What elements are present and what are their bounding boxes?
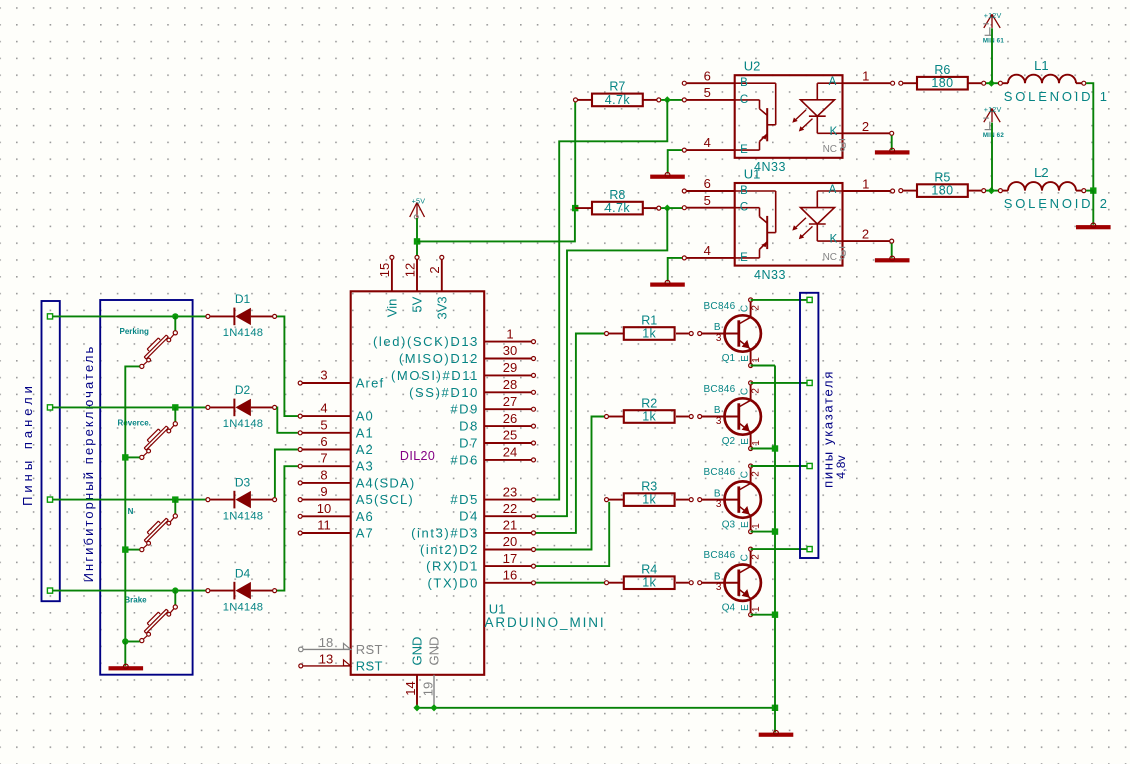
svg-text:D8: D8 [459,419,479,434]
pin 22 D4 [459,501,535,524]
transistor Q2 BC846 [702,381,762,451]
junction [172,313,178,319]
wire [891,136,893,150]
svg-text:1: 1 [751,357,762,363]
svg-text:22: 22 [503,501,517,516]
svg-text:6: 6 [704,176,711,191]
svg-text:23: 23 [503,484,517,499]
svg-text:BC846: BC846 [703,301,735,312]
pin 8 A4(SDA) [298,467,415,490]
wire net #D3 to R1 [536,334,604,533]
wire net D1 to R3 [536,502,609,566]
opto-coupler U2 4N33 [682,68,894,157]
svg-text:A7: A7 [356,526,374,541]
wire [125,456,139,458]
svg-text:B: B [714,571,721,582]
wire [668,258,682,282]
wire [53,315,206,317]
ground [1076,225,1111,229]
svg-text:BC846: BC846 [703,384,735,395]
svg-text:3: 3 [320,368,327,383]
svg-text:Reverce.: Reverce. [118,418,151,427]
pin 20 (int2)D2 [420,534,536,557]
ground [109,666,144,670]
resistor R1 1k [605,313,702,340]
pin 18 RST (inactive) [299,635,383,657]
svg-text:Q3: Q3 [722,519,736,530]
svg-text:N: N [128,507,134,516]
pin 16 (TX)D0 [428,568,536,591]
svg-text:1: 1 [862,177,869,192]
svg-text:ARDUINO_MINI: ARDUINO_MINI [485,615,606,630]
wire GND rail [417,707,775,709]
power +5V flag [410,197,425,219]
svg-text:A: A [829,184,837,196]
resistor R8 4.7k [575,188,661,215]
sheet Пины панели [20,301,60,601]
svg-text:MIN 62: MIN 62 [983,132,1005,139]
svg-text:A: A [829,76,837,88]
svg-text:2: 2 [751,471,762,477]
svg-text:A6: A6 [356,509,374,524]
wire +5V [416,218,418,255]
junction [1090,187,1096,193]
svg-text:Q1: Q1 [722,353,736,364]
svg-text:E: E [740,144,748,156]
svg-text:C: C [739,388,750,395]
svg-text:E: E [740,604,751,611]
junction [430,704,437,711]
junction [772,445,778,451]
junction [172,496,178,502]
svg-text:RST: RST [356,658,383,673]
junction [122,546,128,552]
svg-text:R5: R5 [934,170,950,184]
switch Reverce. [118,407,178,459]
wire [661,99,682,101]
hierarchical pin [807,463,812,468]
pin 30 (MISO)D12 [399,343,536,366]
switch Perking [120,316,178,368]
wire [661,207,682,209]
hierarchical pin [47,497,52,502]
pin 5 A1 [298,417,374,440]
svg-text:3: 3 [716,333,722,344]
svg-text:#D9: #D9 [450,402,479,417]
wire [417,208,575,241]
svg-text:1: 1 [751,606,762,612]
svg-text:C: C [740,202,748,214]
svg-text:Q4: Q4 [722,602,736,613]
svg-text:U2: U2 [744,59,761,74]
junction [772,612,778,618]
svg-text:R6: R6 [934,63,950,77]
svg-text:1N4148: 1N4148 [223,601,263,613]
junction [772,528,778,534]
junction [122,454,128,460]
wire [774,708,776,733]
wire [574,102,576,208]
svg-text:4.7k: 4.7k [605,201,631,215]
svg-text:1k: 1k [642,327,656,341]
svg-text:R4: R4 [641,563,657,577]
pin 15 Vin [377,255,399,317]
svg-text:(RX)D1: (RX)D1 [426,559,479,574]
svg-text:B: B [740,185,748,197]
junction [414,238,420,244]
svg-text:+12V: +12V [984,11,1002,20]
svg-text:GND: GND [427,637,442,666]
svg-text:B: B [714,405,721,416]
switch N [128,500,178,552]
svg-text:A0: A0 [356,409,374,424]
junction [122,638,128,644]
ground [875,258,910,262]
svg-text:R7: R7 [609,80,625,94]
power +12V flag MIN 62 [983,105,1005,139]
svg-text:26: 26 [503,411,517,426]
svg-text:C: C [739,471,750,478]
wire [1092,191,1094,225]
svg-text:1: 1 [862,69,869,84]
pin 27 #D9 [450,394,535,417]
pin 10 A6 [298,501,374,524]
pin 9 A5(SCL) [298,484,414,507]
power +12V flag MIN 61 [983,11,1005,45]
wire net D0 to R4 [536,582,604,584]
wire D1-A0 [277,316,298,416]
wire net D2 to R2 [536,417,604,550]
svg-text:Brake: Brake [124,596,147,605]
svg-text:3: 3 [716,416,722,427]
wire [986,190,998,192]
svg-text:2: 2 [862,227,869,242]
svg-text:+5V: +5V [412,197,426,206]
wire emitter rail [774,366,776,708]
svg-text:R2: R2 [641,396,657,410]
wire collector [751,299,807,301]
svg-text:11: 11 [317,518,331,533]
pin 3 Aref [298,368,384,391]
svg-text:7: 7 [320,451,327,466]
svg-text:+12V: +12V [984,105,1002,114]
svg-text:E: E [740,521,751,528]
svg-text:Ингибиторный переключатель: Ингибиторный переключатель [81,345,96,583]
svg-text:D4: D4 [459,509,479,524]
svg-text:Aref: Aref [356,376,385,391]
junction [772,705,778,711]
wire [1086,190,1093,192]
svg-text:4N33: 4N33 [754,268,786,282]
svg-text:4: 4 [320,401,327,416]
svg-text:180: 180 [931,184,953,198]
wire [986,82,998,84]
svg-text:9: 9 [320,484,327,499]
inductor L2 SOLENOID 2 [998,165,1109,211]
pin 11 A7 [298,518,374,541]
wire collector [751,465,807,467]
svg-text:1k: 1k [642,493,656,507]
svg-text:A1: A1 [356,425,374,440]
wire [53,590,206,592]
transistor Q3 BC846 [702,464,762,534]
svg-text:(int3)#D3: (int3)#D3 [411,525,479,540]
sheet пины указателя 4,8v [800,293,848,558]
pin 6 A2 [298,434,374,457]
svg-text:E: E [740,252,748,264]
svg-text:19: 19 [420,682,435,696]
svg-text:K: K [830,126,838,138]
hierarchical pin [807,380,812,385]
svg-text:A2: A2 [356,442,374,457]
svg-text:1: 1 [506,326,513,341]
pin 4 A0 [298,401,374,424]
svg-text:15: 15 [377,263,392,277]
pin 13 RST [299,651,383,673]
svg-text:2: 2 [751,554,762,560]
svg-text:16: 16 [503,568,517,583]
svg-text:14: 14 [403,681,418,695]
wire emitter [751,448,775,450]
svg-text:B: B [714,322,721,333]
resistor R7 4.7k [574,80,661,107]
svg-text:27: 27 [503,394,517,409]
svg-text:4.7k: 4.7k [605,93,631,107]
wire [125,641,139,643]
junction [664,205,671,212]
hierarchical pin [47,588,52,593]
diode D2 1N4148 [206,383,277,430]
svg-text:1N4148: 1N4148 [223,327,263,339]
wire collector [751,382,807,384]
junction [988,80,995,87]
svg-text:13: 13 [319,651,333,666]
svg-text:(led)(SCK)D13: (led)(SCK)D13 [373,334,479,349]
svg-text:B: B [740,77,748,89]
svg-text:180: 180 [931,76,953,90]
svg-text:2: 2 [751,388,762,394]
pin 17 (RX)D1 [426,551,535,574]
svg-text:2: 2 [862,119,869,134]
svg-text:E: E [740,355,751,362]
svg-text:A3: A3 [356,459,374,474]
switch Brake [124,591,177,643]
svg-text:20: 20 [503,534,517,549]
svg-text:1: 1 [751,440,762,446]
svg-text:5: 5 [320,417,327,432]
inductor L1 SOLENOID 1 [998,58,1109,104]
hierarchical pin [807,547,812,552]
svg-text:A4(SDA): A4(SDA) [356,475,416,490]
svg-text:Vin: Vin [384,299,399,318]
svg-text:5V: 5V [410,296,425,312]
svg-text:28: 28 [503,377,517,392]
svg-text:1k: 1k [642,410,656,424]
svg-text:BC846: BC846 [703,467,735,478]
pin 19 GND (inactive) [420,637,441,708]
junction [172,587,178,593]
wire emitter [751,365,775,367]
svg-text:Пины панели: Пины панели [20,382,35,506]
svg-text:NC: NC [823,144,837,155]
svg-text:Perking: Perking [120,327,149,336]
pin 7 A3 [298,451,374,474]
IC U1 ARDUINO_MINI DIL20 [351,291,606,675]
ground [650,283,685,287]
svg-text:A5(SCL): A5(SCL) [356,492,414,507]
pin 2 3V3 [427,255,449,319]
resistor R3 1k [605,479,702,506]
pin 25 D7 [459,428,535,451]
pin 21 (int3)#D3 [411,518,535,541]
svg-text:1N4148: 1N4148 [223,418,263,430]
wire D4-A3 [277,466,298,590]
svg-text:RST: RST [356,642,383,657]
svg-text:1: 1 [751,523,762,529]
svg-text:D3: D3 [235,475,251,489]
svg-text:6: 6 [320,434,327,449]
resistor R4 1k [605,563,702,590]
svg-text:R3: R3 [641,479,657,493]
svg-text:L2: L2 [1034,165,1048,180]
hierarchical pin [47,314,52,319]
pin 26 D8 [459,411,535,434]
svg-text:18: 18 [319,635,333,650]
svg-text:BC846: BC846 [703,550,735,561]
junction [572,205,578,211]
svg-text:6: 6 [704,68,711,83]
svg-text:12: 12 [402,263,417,277]
opto-coupler U1 4N33 [682,176,894,265]
wire net D4 to U1 [536,208,668,516]
svg-text:25: 25 [503,428,517,443]
svg-text:8: 8 [320,467,327,482]
wire collector [751,548,807,550]
svg-text:D1: D1 [235,292,251,306]
svg-text:(int2)D2: (int2)D2 [420,542,479,557]
sheet Ингибиторный переключатель [81,300,193,675]
ground [650,175,685,179]
hierarchical pin [47,405,52,410]
svg-text:5: 5 [704,85,711,100]
svg-text:(MOSI)#D11: (MOSI)#D11 [391,368,479,383]
wire [668,150,682,174]
svg-text:#D6: #D6 [450,452,479,467]
transistor Q1 BC846 [702,298,762,368]
ground [875,150,910,154]
svg-text:#D5: #D5 [450,492,479,507]
svg-text:C: C [739,554,750,561]
svg-text:NC: NC [823,252,837,263]
wire D2-A1 [277,407,298,432]
svg-text:3: 3 [716,499,722,510]
wire [124,642,126,666]
svg-text:(MISO)D12: (MISO)D12 [399,351,479,366]
svg-text:4: 4 [704,243,711,258]
junction [988,187,995,194]
svg-text:1k: 1k [642,576,656,590]
diode D4 1N4148 [206,566,277,613]
pin 28 (SS)#D10 [409,377,535,400]
svg-text:K: K [830,234,838,246]
wire emitter [751,531,775,533]
svg-text:(SS)#D10: (SS)#D10 [409,385,479,400]
svg-text:5: 5 [704,193,711,208]
pin 12 5V [402,255,424,312]
svg-text:D4: D4 [235,566,251,580]
junction [413,704,420,711]
hierarchical pin [807,297,812,302]
wire [125,549,139,551]
svg-text:2: 2 [751,305,762,311]
junction [172,404,178,410]
svg-text:1N4148: 1N4148 [223,510,263,522]
svg-text:4,8v: 4,8v [834,455,848,478]
pin 29 (MOSI)#D11 [391,360,536,383]
svg-text:R1: R1 [641,313,657,327]
svg-text:C: C [739,305,750,312]
svg-text:GND: GND [410,637,425,666]
svg-text:D7: D7 [459,436,479,451]
svg-text:C: C [740,94,748,106]
wire [53,499,206,501]
svg-text:L1: L1 [1034,58,1048,73]
svg-text:3: 3 [716,582,722,593]
transistor Q4 BC846 [702,547,762,617]
wire L1 to L2 right [1086,83,1093,190]
svg-text:17: 17 [503,551,517,566]
svg-text:U1: U1 [744,166,761,181]
svg-text:Q2: Q2 [722,436,736,447]
junction [664,96,671,103]
wire [891,244,893,258]
wire emitter [751,614,775,616]
resistor R2 1k [605,396,702,423]
svg-text:21: 21 [503,518,517,533]
wire +12V [991,123,993,191]
svg-text:E: E [740,438,751,445]
wire +12V [991,28,993,83]
svg-text:MIN 61: MIN 61 [983,38,1005,45]
wire net #D5 to U2 [536,100,668,500]
diode D3 1N4148 [206,475,277,522]
pin 24 #D6 [450,445,535,468]
svg-text:D2: D2 [235,383,251,397]
svg-text:R8: R8 [609,188,625,202]
svg-text:(TX)D0: (TX)D0 [428,575,480,590]
pin 1 (led)(SCK)D13 [373,326,536,349]
wire [53,406,206,408]
svg-text:4: 4 [704,135,711,150]
svg-text:10: 10 [317,501,331,516]
svg-text:B: B [714,488,721,499]
svg-text:30: 30 [503,343,517,358]
svg-text:24: 24 [503,445,517,460]
pin 14 GND [403,637,425,708]
diode D1 1N4148 [206,292,277,339]
svg-text:3V3: 3V3 [434,296,449,319]
pin 23 #D5 [450,484,535,507]
resistor R5 180 [899,170,986,197]
resistor R6 180 [899,63,986,90]
ground [759,733,794,737]
svg-text:2: 2 [427,266,442,273]
svg-text:DIL20: DIL20 [400,449,435,463]
wire D3-A2 [275,450,298,498]
svg-text:29: 29 [503,360,517,375]
wire [125,366,139,641]
